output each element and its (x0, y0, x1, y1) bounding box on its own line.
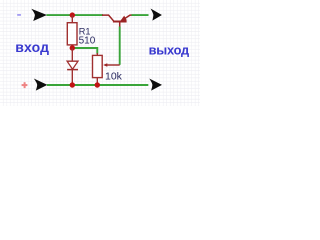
diode VD1 cathode bar (67, 69, 78, 71)
node minus (-) polarity mark (17, 14, 21, 16)
input arrow top-left (31, 9, 47, 21)
junction dot top of R1 (70, 12, 75, 17)
diode VD1 triangle (67, 61, 78, 69)
wire diode top lead (71, 48, 73, 61)
potentiometer wiper arrowhead (103, 63, 107, 67)
wire base to wiper (vertical) (119, 27, 121, 65)
wire top rail right (transistor to output) (132, 14, 149, 16)
input arrow bottom-left (34, 79, 48, 91)
svg-text:выход: выход (149, 43, 189, 58)
wire bottom rail (47, 84, 148, 86)
wire 10k top lead (96, 53, 98, 55)
wire top rail left (input to transistor) (47, 14, 104, 16)
potentiometer 10k body (93, 55, 103, 77)
wire R1 bottom lead (71, 45, 73, 48)
wire R1 top lead (71, 15, 73, 23)
potentiometer wiper line (107, 64, 120, 66)
output arrow bottom-right (149, 79, 162, 91)
wire from R1/diode node to 10k top (72, 48, 97, 54)
junction dot 10k bottom (95, 82, 100, 87)
output arrow top-right (151, 9, 162, 21)
wire 10k bottom lead (96, 78, 98, 85)
transistor VT1 base bar (113, 21, 127, 23)
svg-text:вход: вход (15, 39, 49, 55)
transistor VT1 collector lead (left) (102, 15, 114, 21)
transistor VT1 emitter lead with arrow (right) (125, 15, 133, 19)
junction dot diode bottom (70, 82, 75, 87)
node plus (+) polarity mark (22, 82, 28, 88)
resistor R1 (67, 23, 77, 45)
junction dot below R1 (70, 45, 75, 50)
transistor VT1 base lead (119, 22, 121, 27)
svg-text:10k: 10k (105, 71, 123, 83)
wire diode bottom lead (71, 70, 73, 85)
svg-text:510: 510 (79, 35, 96, 46)
